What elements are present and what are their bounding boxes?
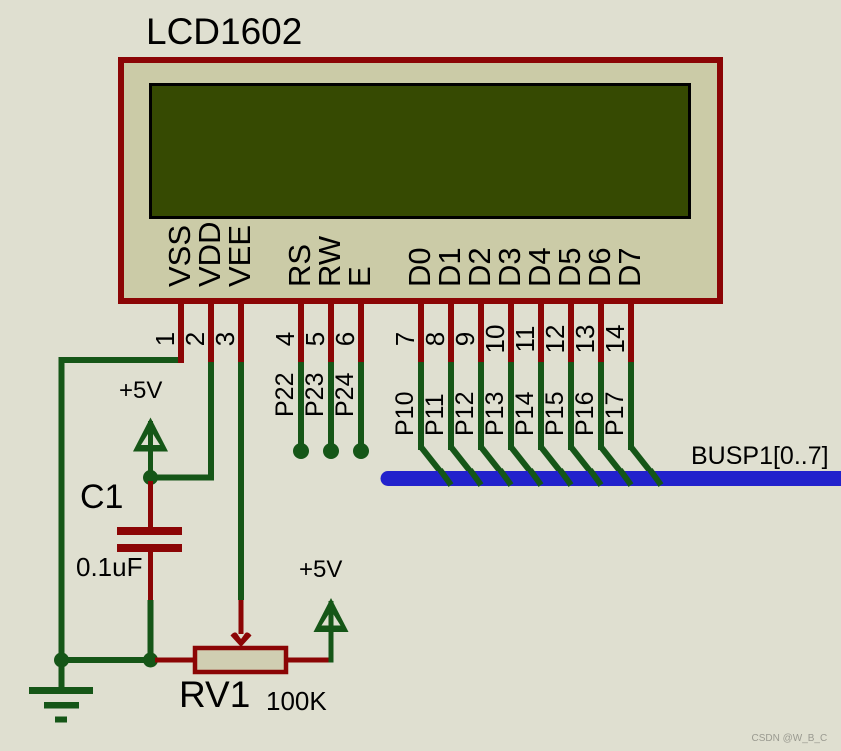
LCD screen area [151, 85, 690, 218]
capacitor C1 bottom plate [117, 544, 182, 552]
power symbol +5V (RV1) arrow outline [314, 598, 349, 632]
wire bus entry tip [590, 470, 601, 485]
svg-text:P23: P23 [301, 373, 329, 417]
svg-text:RV1: RV1 [179, 674, 250, 715]
svg-text:P10: P10 [391, 392, 419, 436]
wire P11 bus entry diagonal [451, 447, 481, 485]
pin 5 stub [328, 301, 334, 363]
svg-text:P15: P15 [541, 392, 569, 436]
wire P16 vertical [598, 362, 604, 450]
wire ground rail: vertical [59, 357, 65, 663]
svg-text:P12: P12 [451, 392, 479, 436]
power symbol +5V (VDD) arrow outline [133, 418, 168, 452]
wire P15 vertical [568, 362, 574, 450]
wire P12 bus entry diagonal [481, 447, 511, 485]
wire P23 vertical [328, 362, 334, 445]
junction node VDD/C1 [143, 470, 158, 485]
svg-text:P14: P14 [511, 391, 539, 436]
svg-text:5: 5 [300, 332, 330, 346]
wire P10 vertical [418, 362, 424, 450]
wire P11 vertical [448, 362, 454, 450]
wire bus entry tip [620, 470, 631, 485]
svg-text:C1: C1 [80, 478, 123, 516]
svg-text:4: 4 [270, 332, 300, 346]
pin 9 stub [478, 301, 484, 363]
svg-text:P17: P17 [601, 392, 629, 436]
pin 8 stub [448, 301, 454, 363]
ground symbol [29, 660, 93, 723]
svg-text:0.1uF: 0.1uF [76, 552, 143, 582]
wire bus entry tip [440, 470, 451, 485]
wire pin2 (VDD) vertical [208, 362, 214, 481]
svg-text:6: 6 [330, 332, 360, 346]
svg-text:14: 14 [600, 325, 630, 354]
RV1 wiper lead red segment [239, 600, 244, 634]
svg-text:+5V: +5V [119, 377, 162, 404]
wire P15 bus entry diagonal [571, 447, 601, 485]
RV1 right lead horizontal [288, 658, 329, 663]
wire pin3 (VEE) vertical green segment [238, 362, 244, 600]
RV1 wiper arrowhead [231, 632, 252, 647]
svg-text:9: 9 [450, 332, 480, 346]
svg-text:1: 1 [150, 332, 180, 346]
svg-text:BUSP1[0..7]: BUSP1[0..7] [691, 442, 829, 470]
pin 3 stub [238, 301, 244, 363]
svg-text:E: E [342, 266, 377, 287]
wire P12 vertical [478, 362, 484, 450]
power symbol +5V (VDD) stem [148, 421, 153, 474]
wire P24 vertical [358, 362, 364, 445]
wire P22 vertical [298, 362, 304, 445]
terminal P23 dot [323, 443, 339, 459]
capacitor C1 top lead [148, 481, 153, 527]
capacitor C1 bottom lead green segment [148, 600, 154, 657]
power symbol +5V (RV1) stem [329, 601, 334, 663]
svg-text:P24: P24 [331, 372, 359, 417]
LCD module body outline [121, 60, 720, 301]
pin 4 stub [298, 301, 304, 363]
wire bus entry tip [530, 470, 541, 485]
pin 11 stub [538, 301, 544, 363]
svg-text:13: 13 [570, 325, 600, 354]
capacitor C1 top plate [117, 527, 182, 535]
capacitor C1 bottom lead red segment [148, 552, 153, 600]
wire bus entry tip [470, 470, 481, 485]
svg-text:2: 2 [180, 332, 210, 346]
wire P14 bus entry diagonal [541, 447, 571, 485]
terminal P22 dot [293, 443, 309, 459]
terminal P24 dot [353, 443, 369, 459]
RV1 left lead [155, 658, 195, 663]
potentiometer RV1 body [195, 648, 286, 672]
pin 12 stub [568, 301, 574, 363]
svg-text:11: 11 [510, 326, 540, 353]
pin 13 stub [598, 301, 604, 363]
pin 7 stub [418, 301, 424, 363]
wire P17 vertical [628, 362, 634, 450]
bus BUSP1[0..7] [388, 471, 841, 486]
pin 14 stub [628, 301, 634, 363]
wire bus entry tip [500, 470, 511, 485]
svg-text:LCD1602: LCD1602 [146, 11, 302, 52]
wire P13 bus entry diagonal [511, 447, 541, 485]
wire pin2 to +5V node: horizontal [150, 475, 214, 481]
svg-text:8: 8 [420, 332, 450, 346]
svg-text:D7: D7 [612, 247, 647, 287]
svg-text:P13: P13 [481, 392, 509, 436]
svg-text:+5V: +5V [299, 556, 342, 583]
pin 2 stub [208, 301, 214, 363]
wire bus entry tip [650, 470, 661, 485]
pin 6 stub [358, 301, 364, 363]
svg-text:VEE: VEE [222, 225, 257, 287]
ground junction node [54, 653, 69, 668]
svg-text:3: 3 [210, 332, 240, 346]
svg-text:12: 12 [540, 325, 570, 354]
pin 10 stub [508, 301, 514, 363]
svg-text:P11: P11 [421, 393, 449, 436]
svg-text:P16: P16 [571, 392, 599, 436]
junction node C1/RV1 [143, 653, 158, 668]
wire P10 bus entry diagonal [421, 447, 451, 485]
pin 1 stub [178, 301, 184, 363]
wire P14 vertical [538, 362, 544, 450]
wire P17 bus entry diagonal [631, 447, 661, 485]
svg-text:10: 10 [480, 325, 510, 354]
wire P13 vertical [508, 362, 514, 450]
svg-text:7: 7 [390, 332, 420, 346]
svg-text:P22: P22 [271, 373, 299, 417]
wire bottom rail ground to C1 node [59, 657, 154, 663]
svg-text:100K: 100K [266, 686, 327, 716]
wire pin1 (VSS) to ground rail: horizontal [59, 357, 179, 363]
wire P16 bus entry diagonal [601, 447, 631, 485]
wire bus entry tip [560, 470, 571, 485]
svg-text:CSDN @W_B_C: CSDN @W_B_C [752, 733, 828, 744]
